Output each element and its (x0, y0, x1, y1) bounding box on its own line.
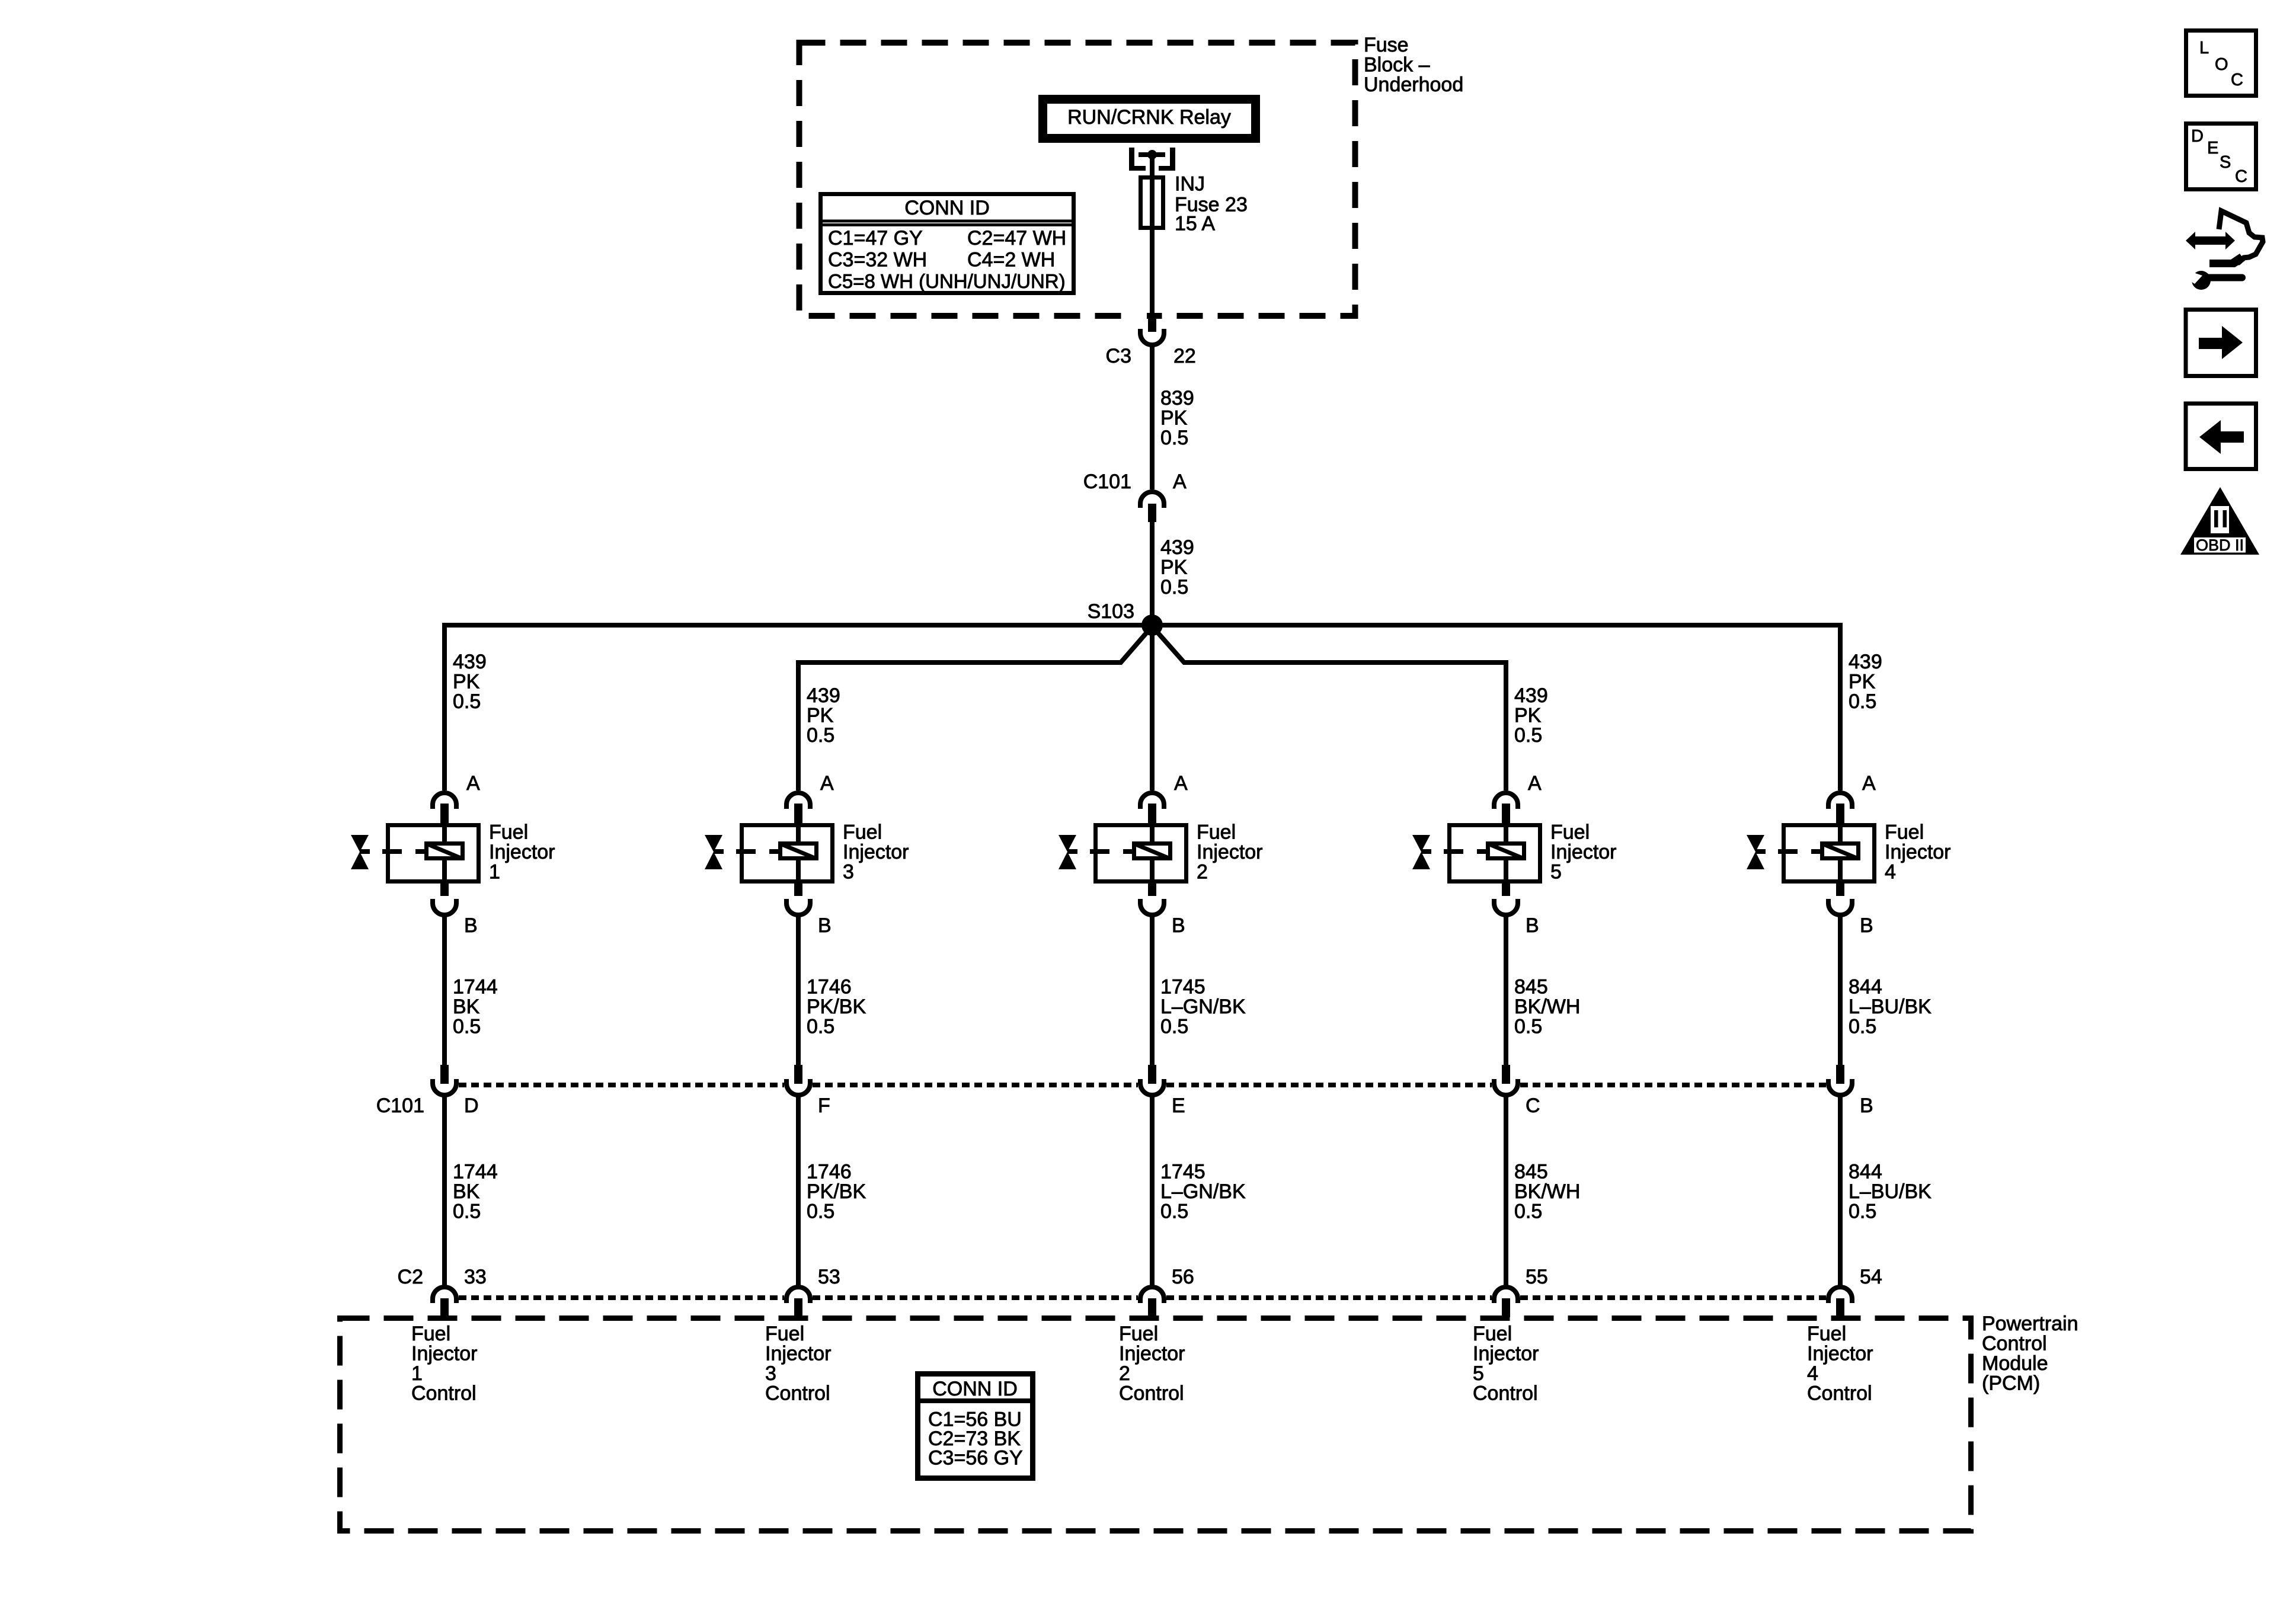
svg-text:15 A: 15 A (1175, 213, 1215, 235)
svg-text:0.5: 0.5 (807, 724, 834, 747)
svg-text:Injector: Injector (1473, 1343, 1539, 1365)
svg-text:B: B (1860, 914, 1873, 937)
svg-text:Injector: Injector (843, 841, 909, 863)
svg-text:0.5: 0.5 (807, 1016, 834, 1038)
svg-text:Injector: Injector (489, 841, 555, 863)
svg-text:0.5: 0.5 (1849, 690, 1876, 713)
svg-text:1: 1 (411, 1362, 423, 1385)
svg-text:Control: Control (411, 1382, 477, 1405)
svg-text:1744: 1744 (453, 976, 498, 998)
svg-text:Injector: Injector (1885, 841, 1951, 863)
svg-text:B: B (1860, 1094, 1873, 1117)
svg-text:B: B (1172, 914, 1185, 937)
svg-text:B: B (1526, 914, 1539, 937)
svg-text:L: L (2199, 39, 2209, 57)
svg-text:B: B (464, 914, 478, 937)
svg-text:C2=47 WH: C2=47 WH (967, 227, 1066, 249)
svg-text:A: A (466, 772, 480, 795)
svg-text:OBD II: OBD II (2196, 536, 2244, 554)
svg-text:54: 54 (1860, 1266, 1882, 1288)
svg-text:1745: 1745 (1160, 976, 1205, 998)
svg-text:(PCM): (PCM) (1982, 1372, 2040, 1395)
svg-text:BK: BK (453, 996, 480, 1018)
svg-text:844: 844 (1849, 1161, 1882, 1183)
svg-text:439: 439 (1514, 684, 1548, 707)
svg-text:844: 844 (1849, 976, 1882, 998)
svg-text:Fuel: Fuel (1473, 1323, 1512, 1345)
svg-text:4: 4 (1885, 861, 1896, 884)
svg-text:845: 845 (1514, 976, 1548, 998)
svg-text:Injector: Injector (1119, 1343, 1185, 1365)
svg-text:Control: Control (1119, 1382, 1184, 1405)
svg-text:Fuel: Fuel (843, 821, 882, 844)
svg-text:0.5: 0.5 (807, 1201, 834, 1223)
svg-text:Fuse: Fuse (1364, 34, 1409, 56)
svg-text:L–GN/BK: L–GN/BK (1160, 1180, 1246, 1203)
svg-text:0.5: 0.5 (453, 690, 481, 713)
svg-text:S: S (2220, 153, 2231, 172)
svg-text:C5=8 WH (UNH/UNJ/UNR): C5=8 WH (UNH/UNJ/UNR) (828, 270, 1066, 292)
svg-text:0.5: 0.5 (453, 1201, 481, 1223)
svg-text:Control: Control (1473, 1382, 1538, 1405)
svg-text:1746: 1746 (807, 976, 852, 998)
svg-text:CONN ID: CONN ID (904, 197, 990, 219)
svg-text:A: A (1862, 772, 1876, 795)
svg-text:Fuel: Fuel (1807, 1323, 1846, 1345)
svg-text:Fuel: Fuel (1119, 1323, 1158, 1345)
svg-text:2: 2 (1119, 1362, 1130, 1385)
svg-text:C: C (1526, 1094, 1540, 1117)
svg-text:439: 439 (1160, 536, 1194, 559)
svg-text:Injector: Injector (765, 1343, 832, 1365)
svg-text:3: 3 (843, 861, 854, 884)
svg-text:RUN/CRNK Relay: RUN/CRNK Relay (1067, 106, 1231, 129)
svg-text:0.5: 0.5 (1849, 1016, 1876, 1038)
svg-text:C: C (2231, 71, 2243, 89)
svg-text:0.5: 0.5 (1160, 427, 1188, 449)
svg-text:56: 56 (1172, 1266, 1194, 1288)
svg-text:E: E (1172, 1094, 1185, 1117)
svg-text:33: 33 (464, 1266, 487, 1288)
svg-text:D: D (464, 1094, 479, 1117)
svg-text:1744: 1744 (453, 1161, 498, 1183)
svg-text:C3: C3 (1106, 345, 1131, 367)
svg-text:F: F (818, 1094, 830, 1117)
svg-text:C101: C101 (1083, 470, 1131, 493)
svg-text:CONN ID: CONN ID (932, 1378, 1018, 1400)
svg-text:22: 22 (1173, 345, 1196, 367)
svg-text:5: 5 (1473, 1362, 1484, 1385)
svg-text:C3=56 GY: C3=56 GY (928, 1447, 1023, 1470)
svg-text:C3=32 WH: C3=32 WH (828, 249, 927, 271)
svg-text:L–GN/BK: L–GN/BK (1160, 996, 1246, 1018)
svg-text:2: 2 (1197, 861, 1208, 884)
svg-text:PK/BK: PK/BK (807, 996, 866, 1018)
svg-text:Control: Control (1807, 1382, 1872, 1405)
svg-text:PK: PK (1160, 556, 1188, 579)
svg-text:Fuel: Fuel (489, 821, 528, 844)
svg-text:PK: PK (1849, 671, 1876, 693)
svg-text:Injector: Injector (411, 1343, 478, 1365)
svg-text:0.5: 0.5 (1160, 1201, 1188, 1223)
svg-text:839: 839 (1160, 387, 1194, 409)
svg-text:1746: 1746 (807, 1161, 852, 1183)
svg-text:L–BU/BK: L–BU/BK (1849, 996, 1932, 1018)
svg-text:E: E (2207, 139, 2218, 158)
svg-text:53: 53 (818, 1266, 840, 1288)
svg-text:A: A (1528, 772, 1542, 795)
svg-text:BK: BK (453, 1180, 480, 1203)
svg-text:0.5: 0.5 (1160, 576, 1188, 598)
svg-text:439: 439 (807, 684, 840, 707)
svg-text:D: D (2191, 127, 2204, 146)
svg-text:0.5: 0.5 (1849, 1201, 1876, 1223)
svg-text:Fuel: Fuel (765, 1323, 804, 1345)
svg-text:Fuel: Fuel (1197, 821, 1236, 844)
svg-text:Injector: Injector (1197, 841, 1263, 863)
svg-text:Fuel: Fuel (1885, 821, 1924, 844)
svg-text:A: A (820, 772, 834, 795)
svg-text:BK/WH: BK/WH (1514, 996, 1580, 1018)
svg-text:Powertrain: Powertrain (1982, 1313, 2078, 1335)
svg-text:O: O (2215, 55, 2228, 74)
svg-text:3: 3 (765, 1362, 776, 1385)
svg-text:Module: Module (1982, 1352, 2048, 1375)
svg-text:PK: PK (807, 705, 834, 727)
svg-text:845: 845 (1514, 1161, 1548, 1183)
svg-text:Fuel: Fuel (411, 1323, 450, 1345)
svg-text:PK: PK (1514, 705, 1542, 727)
svg-text:PK/BK: PK/BK (807, 1180, 866, 1203)
svg-text:C1=47 GY: C1=47 GY (828, 227, 923, 249)
svg-text:BK/WH: BK/WH (1514, 1180, 1580, 1203)
svg-text:Underhood: Underhood (1364, 73, 1463, 96)
svg-text:INJ: INJ (1175, 173, 1205, 196)
svg-text:439: 439 (453, 651, 487, 673)
svg-text:A: A (1174, 772, 1188, 795)
svg-text:4: 4 (1807, 1362, 1818, 1385)
svg-text:C: C (2235, 167, 2247, 186)
svg-text:Control: Control (1982, 1333, 2047, 1355)
svg-text:A: A (1173, 470, 1187, 493)
svg-text:Control: Control (765, 1382, 830, 1405)
svg-text:1745: 1745 (1160, 1161, 1205, 1183)
svg-text:55: 55 (1526, 1266, 1548, 1288)
svg-text:0.5: 0.5 (1514, 1016, 1542, 1038)
svg-text:C101: C101 (376, 1094, 424, 1117)
svg-text:Injector: Injector (1550, 841, 1617, 863)
svg-text:439: 439 (1849, 651, 1882, 673)
svg-text:Block –: Block – (1364, 54, 1430, 76)
svg-text:S103: S103 (1088, 600, 1134, 623)
svg-text:5: 5 (1550, 861, 1562, 884)
svg-text:0.5: 0.5 (1160, 1016, 1188, 1038)
svg-text:1: 1 (489, 861, 500, 884)
svg-text:0.5: 0.5 (453, 1016, 481, 1038)
svg-text:C2: C2 (398, 1266, 423, 1288)
svg-text:0.5: 0.5 (1514, 724, 1542, 747)
svg-text:Injector: Injector (1807, 1343, 1873, 1365)
svg-text:PK: PK (453, 671, 480, 693)
svg-text:PK: PK (1160, 407, 1188, 430)
svg-text:B: B (818, 914, 832, 937)
svg-text:Fuel: Fuel (1550, 821, 1590, 844)
svg-text:0.5: 0.5 (1514, 1201, 1542, 1223)
svg-text:C4=2 WH: C4=2 WH (967, 249, 1055, 271)
svg-text:L–BU/BK: L–BU/BK (1849, 1180, 1932, 1203)
